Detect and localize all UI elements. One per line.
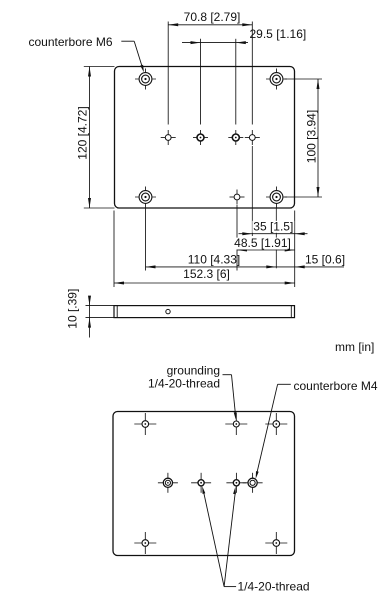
svg-text:110 [4.33]: 110 [4.33] [188, 253, 241, 267]
bottom view counterbore M4 hole [243, 473, 263, 493]
svg-text:152.3 [6]: 152.3 [6] [183, 267, 230, 281]
side view: plate outline [114, 306, 295, 318]
label 1/4-20-thread [202, 486, 309, 593]
svg-text:counterbore M4: counterbore M4 [294, 379, 378, 393]
counterbore hole M6 bottom-right [266, 187, 287, 208]
extension hole E down [236, 205, 238, 271]
dimension 48.5 [1.91] [233, 236, 295, 252]
dimension 152.3 [6] [114, 267, 295, 285]
label counterbore M4 [256, 379, 378, 479]
threaded hole B middle row [193, 130, 208, 145]
threaded hole C middle row [228, 130, 243, 145]
svg-text:70.8 [2.79]: 70.8 [2.79] [184, 10, 241, 24]
dimension 70.8 [2.79] [168, 10, 252, 26]
bottom view grounding hole top-middle [225, 413, 247, 435]
extension line hole D up [251, 22, 253, 125]
dimension 110 [4.33] [146, 253, 277, 269]
bottom view 1/4-20-thread hole 2 [226, 473, 246, 493]
dimension 100 [3.94] [285, 79, 323, 197]
extension right edge down [294, 211, 296, 288]
extension line hole C up [235, 39, 237, 125]
extension BL counterbore down [145, 208, 147, 270]
dimension 15 [0.6] [276, 253, 345, 269]
small hole E bottom middle [230, 190, 245, 205]
svg-text:15 [0.6]: 15 [0.6] [305, 253, 345, 267]
svg-text:35 [1.5]: 35 [1.5] [253, 219, 293, 233]
bottom view hole bottom-right [265, 532, 287, 554]
counterbore hole M6 bottom-left [135, 187, 156, 208]
svg-text:10 [.39]: 10 [.39] [66, 289, 80, 329]
bottom view hole top-right [265, 413, 287, 435]
svg-text:1/4-20-thread: 1/4-20-thread [238, 580, 310, 594]
extension left edge down [113, 211, 115, 288]
side view left corner line [116, 306, 118, 318]
extension hole D down [251, 146, 253, 236]
label grounding 1/4-20-thread [148, 364, 237, 420]
small hole A middle row [161, 130, 176, 145]
label counterbore M6 [29, 35, 144, 72]
svg-text:mm [in]: mm [in] [335, 340, 374, 354]
svg-text:29.5 [1.16]: 29.5 [1.16] [250, 27, 307, 41]
side view grounding hole [166, 309, 170, 313]
dimension 29.5 [1.16] [182, 27, 306, 44]
bottom view: plate outline [113, 412, 295, 556]
bottom view 1/4-20-thread hole 1 [191, 473, 211, 493]
side view right corner line [290, 306, 292, 318]
counterbore hole M6 top-right [266, 69, 287, 90]
extension BR counterbore down [275, 208, 277, 268]
small hole D middle row [245, 130, 260, 145]
svg-text:100 [3.94]: 100 [3.94] [305, 110, 319, 163]
extension line hole B up [200, 39, 202, 125]
dimension 10 [.39] [66, 289, 114, 338]
dimension 35 [1.5] [239, 219, 308, 235]
counterbore hole M6 top-left [135, 69, 156, 90]
bottom view hole bottom-left [134, 532, 156, 554]
dimension 120 [4.72] [75, 67, 114, 209]
bottom view hole top-left [134, 413, 156, 435]
svg-text:120 [4.72]: 120 [4.72] [75, 106, 89, 159]
svg-text:48.5 [1.91]: 48.5 [1.91] [234, 236, 291, 250]
svg-text:1/4-20-thread: 1/4-20-thread [148, 376, 220, 390]
svg-text:counterbore M6: counterbore M6 [29, 35, 113, 49]
top view: plate outline [115, 67, 295, 209]
extension line hole A up [167, 22, 169, 125]
bottom view grounding 1/4-20 thread hole [158, 473, 178, 493]
